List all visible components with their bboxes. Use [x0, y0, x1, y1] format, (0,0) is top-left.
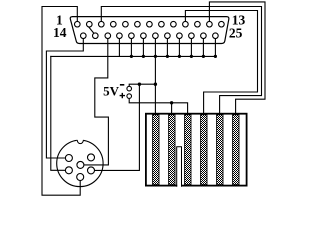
contact bar 1 [153, 115, 159, 185]
contact bar 5 [217, 115, 223, 185]
junction dots on ground bus [130, 55, 217, 105]
contact bar 4 [201, 115, 207, 185]
keyway notch arc [77, 140, 83, 144]
wire pin14 to DIN pin UL (left mid route) [46, 39, 83, 158]
label plus sign [120, 93, 125, 98]
label minus sign [120, 84, 124, 86]
wire pin22 drop to bus [178, 39, 180, 57]
terminal 5V minus [127, 86, 132, 91]
wire pin18 drop to bus [130, 39, 132, 57]
wire 5V minus branch down to DIN pin LR [95, 84, 140, 170]
connector J1 DB25 pins bottom row 14-25 [81, 33, 219, 39]
contact bar 3 [185, 115, 191, 185]
wire pin3 to bar5 (right route middle) [101, 7, 261, 117]
wire pin16 to DIN pin C with jog around 5V label [84, 39, 109, 165]
connector J1 DB25 body [70, 17, 229, 44]
wire branch to bar2 [171, 103, 173, 116]
contact bar 2 [169, 115, 175, 185]
DIN pin UL [65, 155, 72, 162]
wire 5V minus to pin20 line [129, 84, 155, 86]
wire pin19 drop to bus [142, 39, 144, 57]
junction dot minus line at pin20 wire [154, 83, 157, 86]
junction dot minus line branch [138, 83, 141, 86]
wire pin24 drop to bus [202, 39, 204, 57]
key slot outline [177, 147, 182, 187]
DIN pin C [77, 161, 84, 168]
svg-text:5V: 5V [103, 83, 120, 98]
wire pin10 to bar4 (right route inner) [185, 11, 257, 117]
wire bus to DIN pin LL (left inner route) [51, 56, 66, 170]
wire pin1 to DIN pin B (left outer route) [42, 7, 80, 196]
wire pin17 drop to bus [118, 39, 120, 57]
svg-text:25: 25 [229, 25, 243, 40]
connector J1 DB25 pins top row 1-13 [75, 21, 225, 27]
key slot white [177, 147, 181, 188]
connector J2 DIN body circle [57, 140, 103, 186]
terminal 5V plus [127, 94, 132, 99]
wire pin20 drop through bus to bar1 (ground) [154, 39, 156, 117]
wire pin25 drop to bus [214, 39, 216, 57]
wire pin23 drop to bus [190, 39, 192, 57]
DIN pin LL [65, 167, 72, 174]
DIN pin UR [88, 154, 95, 161]
card edge box outline [146, 114, 247, 186]
wire pin12 to bar6 (right route outer) [209, 2, 265, 116]
wire pin21 drop to bus [166, 39, 168, 57]
wire 5V plus to bar3 [129, 98, 187, 116]
DIN pin B [77, 174, 84, 181]
DIN pin LR [88, 167, 95, 174]
ground bus pins 17-25 [51, 55, 216, 57]
wire pin2 to pin15 diagonal short [88, 27, 93, 33]
keyway notch white gap [77, 139, 84, 143]
svg-text:14: 14 [53, 25, 67, 40]
contact bar 6 [233, 115, 239, 185]
junction dot plus line at bar2 branch [170, 101, 173, 104]
